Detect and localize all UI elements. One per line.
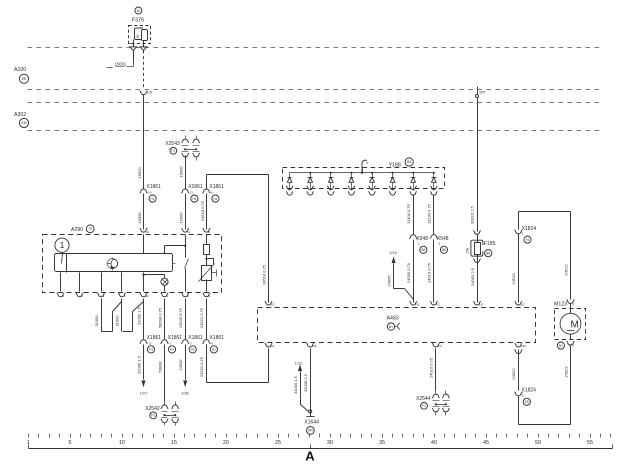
connector X1861 pin 10 [140, 184, 162, 202]
fuse F376 value 30 [136, 35, 140, 39]
socket 1/5 on wire at module boundary [140, 90, 152, 94]
dashed module separation line 2 (module A100 lower edge) [28, 89, 604, 91]
solder junction circle above X1644 [309, 410, 312, 413]
wire 11530 from Y188 diode D8 to connector X548 pin 3 [433, 195, 435, 234]
wire from A290 pin 10 into unit body [143, 235, 145, 254]
junction node on pin 12 lead [142, 274, 144, 276]
svg-text:2: 2 [187, 294, 189, 298]
wire value label 11409 0.75 [406, 203, 411, 223]
svg-text:31000 1.5: 31000 1.5 [136, 355, 141, 374]
wire 24003 from F185 to A403 pin 1/5 [477, 235, 479, 303]
fuse F376 right lead wire [143, 41, 145, 47]
svg-text:X1861: X1861 [188, 335, 203, 341]
svg-text:11530 0.75: 11530 0.75 [427, 203, 432, 223]
svg-text:9: 9 [208, 294, 210, 298]
wire value label 31000 1.5 [136, 306, 141, 325]
wire loop from A290 pin 6 area to A403 pin 1/2 (top segment) [207, 175, 269, 303]
svg-text:X1861: X1861 [210, 335, 225, 341]
svg-text:X2542: X2542 [145, 406, 160, 412]
socket above fuse F185 [473, 231, 481, 235]
svg-text:24521 0.75: 24521 0.75 [199, 356, 204, 377]
svg-text:1/5: 1/5 [147, 90, 152, 94]
svg-text:8: 8 [62, 294, 64, 298]
location code B1 for M123 [557, 342, 564, 349]
svg-text:15: 15 [171, 440, 177, 446]
svg-text:F1: F1 [151, 414, 155, 418]
svg-text:30: 30 [136, 35, 140, 39]
connector X1861 pin 1 (lower row) [161, 335, 183, 353]
svg-text:11: 11 [190, 191, 193, 195]
wire value label 58008 0.75 [157, 307, 162, 328]
svg-text:11409 0.75: 11409 0.75 [406, 203, 411, 223]
grid ruler baseline [29, 445, 613, 449]
svg-text:9: 9 [211, 342, 213, 346]
wire loop bottom segment [519, 397, 571, 425]
rheostat side tap terminal [212, 270, 217, 277]
svg-text:24003 2.5: 24003 2.5 [470, 267, 475, 286]
ground wire 31000 from A290 pin 12 to connector X1861 pin 12 [143, 299, 145, 339]
A290 inner unit body rectangle [55, 254, 173, 272]
svg-text:A100: A100 [14, 67, 26, 73]
control dial symbol inside A290 [107, 258, 118, 271]
wire 24022 from A403 pin 1/10 to X1824 pin 2 [518, 350, 520, 391]
svg-text:1: 1 [522, 232, 524, 236]
svg-text:30: 30 [327, 440, 333, 446]
svg-text:55: 55 [587, 440, 593, 446]
svg-text:F5: F5 [526, 238, 530, 242]
svg-text:4: 4 [124, 294, 126, 298]
svg-text:B1: B1 [559, 344, 563, 348]
svg-text:58008 0.75: 58008 0.75 [157, 307, 162, 328]
wire 16006 from X1861 pin 11 to A290 pin 11 [185, 194, 187, 230]
grid ruler numbers [27, 440, 593, 446]
svg-text:35: 35 [379, 440, 385, 446]
svg-text:X1861: X1861 [209, 184, 224, 190]
wire value label 11530 0.75 [427, 203, 432, 223]
svg-text:24022: 24022 [563, 366, 568, 378]
motor M123 dashed boundary box [555, 309, 586, 340]
svg-text:12: 12 [148, 342, 152, 346]
location code W4 for X1644 [307, 427, 315, 435]
wire value label 30016 2.5 [470, 205, 475, 224]
svg-text:F376: F376 [132, 18, 144, 24]
svg-text:30016 2.5: 30016 2.5 [470, 205, 475, 224]
wire value label 24521 0.75 (below X1861 pin 9) [199, 356, 204, 377]
wire 24513 from X1824 pin 1 to A403 pin 1/7 [518, 234, 520, 303]
svg-text:X2543: X2543 [165, 141, 180, 147]
A290 pin 1 at bottom edge [161, 293, 169, 298]
A290 pin 2b at bottom edge [181, 293, 189, 298]
A290 unit body bottom lead pin 5 [79, 273, 81, 292]
wire from loop corner down to connector X1861 pin 6 [206, 175, 208, 189]
item number circle 1 with pointer [55, 238, 69, 263]
junction node on pin 11 wire [184, 245, 186, 247]
wire value label 24006 [178, 359, 183, 371]
sheet continuation arrow 1/16 with branch to A403 pin 7/3 [389, 251, 413, 300]
svg-text:24505 0.75: 24505 0.75 [178, 307, 183, 328]
A290 pin 6 at top edge [203, 228, 211, 233]
wire from A290 pin 11 to junction [185, 235, 187, 246]
wire 24510 from A403 pin 7/4 to connector X2544 [435, 349, 437, 391]
wire 11409 from Y188 diode D7 to connector X548 pin 1 [413, 195, 415, 234]
series resistor inside A290 [204, 245, 210, 255]
module label A100 [14, 67, 26, 73]
motor M123 bottom pin 2 [567, 341, 575, 347]
A290 pin 9 at bottom edge [203, 293, 211, 298]
fuse F376 label [132, 18, 144, 24]
wire value label 16006 (middle) [179, 212, 184, 224]
svg-text:X1824: X1824 [522, 388, 537, 394]
wire value label 24513 (left) [511, 273, 516, 285]
A403 pin 1/1 at bottom edge [265, 343, 275, 348]
connector contact under F376 right lead [140, 45, 147, 51]
wire value label 31000 1.5 (arrow branch) [293, 375, 298, 394]
dashed module separation line 4 (module A302 lower edge) [28, 130, 604, 132]
connector X2544 [416, 391, 450, 416]
sheet continuation arrow 1/27 [140, 381, 147, 396]
svg-text:X1861: X1861 [147, 335, 162, 341]
diode D4 in Y188 [349, 172, 354, 187]
A403 pin 1/2 at top edge [265, 301, 275, 306]
Y188 bottom socket for diode D6 [389, 186, 396, 195]
ground wire 31000 from X1861 pin 12 to sheet arrow 1/27 [143, 345, 145, 380]
svg-text:X1861: X1861 [188, 184, 203, 190]
svg-text:M: M [571, 319, 579, 330]
fuse F376 dashed holder box [129, 26, 151, 44]
connector X1861 pin 11 [181, 184, 203, 202]
svg-text:16006: 16006 [179, 212, 184, 224]
grid circle 10 above fuse F376 [135, 7, 142, 14]
svg-text:24521 0.75: 24521 0.75 [199, 307, 204, 328]
dashed module separation line 3 (module A302 upper edge) [28, 102, 604, 104]
svg-text:50: 50 [535, 440, 541, 446]
svg-text:B6: B6 [486, 251, 490, 255]
svg-text:6: 6 [366, 161, 368, 165]
fuse F376 holder outline [135, 28, 144, 40]
diode D5 in Y188 [370, 172, 375, 187]
svg-text:1/36: 1/36 [181, 391, 188, 395]
A290 pin 4 at bottom edge [118, 293, 126, 298]
Y188 bottom socket for diode D4 [348, 186, 355, 195]
svg-text:40: 40 [431, 440, 437, 446]
wire value label 16006 (left) [137, 212, 142, 224]
wire from resistor to junction above rheostat [206, 255, 208, 266]
branch wire from junction into unit body [165, 246, 186, 254]
switch S inside A290 [185, 246, 189, 292]
grid ruler tick marks [29, 434, 611, 438]
A290 unit body bottom lead pin 2 [101, 273, 103, 292]
wire value label 31000 (pin 4 bridge) [115, 315, 120, 327]
wire 24521 from A290 pin 9 to connector X1861 pin 9 [206, 299, 208, 339]
svg-text:F185: F185 [484, 241, 496, 247]
diode D1 in Y188 [287, 173, 292, 187]
svg-text:12: 12 [145, 294, 149, 298]
connector X2542 [145, 402, 179, 426]
A290 unit body bottom lead pin 8 [60, 273, 62, 292]
svg-text:31000 1.5: 31000 1.5 [293, 375, 298, 394]
svg-text:1: 1 [418, 241, 420, 245]
location code EN for A302 [19, 118, 28, 127]
svg-text:24510 0.75: 24510 0.75 [427, 262, 432, 283]
control unit A403 label [387, 315, 399, 321]
connector X548 pin 1 [409, 234, 428, 254]
svg-text:1/16: 1/16 [389, 251, 396, 255]
wire value label 24510 0.75 (below A403) [429, 357, 434, 378]
common pin stub from hook to bus [361, 169, 363, 174]
junction node above rheostat [205, 258, 207, 260]
svg-text:16020: 16020 [137, 167, 142, 179]
svg-text:2: 2 [572, 343, 574, 347]
wire 16020 from socket 1/5 down to connector X1861 pin 10 [143, 95, 145, 189]
svg-text:H1: H1 [212, 348, 216, 352]
wire 24022 from M123 pin 2 down to loop bottom [570, 335, 572, 425]
ground bridge wire from A290 pin 4 [122, 299, 144, 332]
svg-text:16006: 16006 [179, 166, 184, 178]
svg-text:A302: A302 [14, 112, 26, 118]
svg-text:EK: EK [22, 77, 27, 81]
fuse F185 label [484, 241, 496, 247]
svg-text:30/T: 30/T [479, 91, 487, 95]
A290 unit body bottom lead pin 4 [121, 273, 123, 292]
svg-text:7/2: 7/2 [436, 303, 441, 307]
wire value label 24510 0.75 [427, 262, 432, 283]
svg-text:25: 25 [275, 440, 281, 446]
wire value label 58008 (below X1861 pin 1) [157, 361, 162, 373]
wire value label 24003 2.5 [470, 267, 475, 286]
svg-text:1: 1 [572, 302, 574, 306]
svg-text:16006: 16006 [137, 212, 142, 224]
wire value label 24505 0.75 [178, 307, 183, 328]
A290 pin 8 at bottom edge [57, 293, 65, 298]
svg-text:1/8: 1/8 [312, 344, 317, 348]
A290 inner body left compartment divider [66, 254, 68, 273]
wire value label 31000 (pin 2 bridge) [94, 315, 99, 327]
wire 30016 from node 30/T down to fuse F185 [477, 98, 479, 232]
wire 58008 from X1861 pin 1 down to connector X2542 [164, 345, 166, 402]
indicator lamp E inside A290 [161, 278, 168, 285]
connector X2543 [165, 136, 200, 161]
wire from A290 pin 6 to series resistor [206, 235, 208, 245]
svg-text:5: 5 [69, 440, 72, 446]
A290 pin 5 at bottom edge [76, 293, 84, 298]
Y188 bottom socket for diode D7 [410, 186, 417, 195]
A290 inner body right terminal tick [173, 263, 176, 265]
svg-text:F1: F1 [422, 404, 426, 408]
A290 pin 2 at bottom edge [97, 293, 105, 298]
rheostat (variable resistor) inside A290 [199, 264, 215, 282]
fuse F185 rating 15A [466, 247, 470, 254]
svg-text:A483: A483 [387, 315, 399, 321]
wire value label 24005 0.75 [406, 262, 411, 283]
svg-text:6: 6 [208, 230, 210, 234]
location code B4 for Y188 [405, 158, 413, 166]
section marker A [305, 445, 315, 464]
svg-text:X1861: X1861 [146, 184, 161, 190]
svg-text:W4: W4 [308, 429, 313, 433]
Y188 bottom socket for diode D1 [286, 186, 293, 195]
svg-text:24513: 24513 [511, 273, 516, 285]
svg-text:X1644: X1644 [304, 419, 319, 425]
module label A302 [14, 112, 26, 118]
ground point X1644 [304, 417, 319, 426]
branch wire to indicator lamp [144, 275, 165, 279]
svg-text:24510 0.75: 24510 0.75 [429, 357, 434, 378]
Y188 internal bus wire [290, 172, 434, 174]
fuse F185 holder outline [471, 240, 483, 256]
svg-text:1/5: 1/5 [479, 303, 484, 307]
svg-text:20: 20 [223, 440, 229, 446]
svg-text:2: 2 [190, 342, 192, 346]
fuse F376 left lead wire [129, 40, 134, 47]
control unit A290 label [71, 227, 83, 233]
svg-text:A290: A290 [71, 227, 83, 233]
wire value label 16020 [137, 167, 142, 179]
svg-text:10: 10 [137, 9, 141, 13]
svg-text:1/2: 1/2 [270, 303, 275, 307]
svg-text:2: 2 [103, 294, 105, 298]
A403 pin 1/5 at top edge [473, 301, 483, 306]
control unit A403 dashed boundary box [258, 308, 536, 343]
wire from lamp to A290 pin 1 [164, 286, 166, 292]
A403 pin 1/7 at top edge [515, 301, 525, 306]
motor M123 label [554, 302, 567, 308]
svg-text:2: 2 [522, 393, 524, 397]
wire value label 24022 (right) [563, 366, 568, 378]
svg-text:24513: 24513 [563, 264, 568, 276]
sheet continuation arrow 1/12 with branch [295, 362, 309, 412]
wire 24006 from X1861 pin 2 to sheet arrow 1/36 [185, 345, 187, 380]
wire 24005 from X548 pin 1 to A403 pin 7/3 [413, 240, 415, 303]
wire 24518 from X1861 pin 6 to A290 pin 6 [206, 194, 208, 230]
diode D6 in Y188 [390, 172, 395, 187]
connector contact under F376 left lead [130, 45, 137, 51]
diode D8 in Y188 [432, 172, 437, 187]
svg-text:H1: H1 [192, 197, 196, 201]
svg-text:31008 2.5: 31008 2.5 [303, 373, 308, 392]
connector X1824 pin 1 [514, 226, 536, 243]
svg-text:10: 10 [145, 230, 149, 234]
svg-text:B1: B1 [389, 325, 393, 329]
wire from rheostat to A290 pin 9 [206, 280, 208, 292]
socket circle of node 30/T [476, 95, 479, 98]
wire value label 24022 (left) [511, 368, 516, 380]
connector X1861 pin 2 (lower row) [181, 335, 203, 353]
motor M123 symbol [560, 304, 581, 335]
diode D3 in Y188 [329, 172, 334, 187]
connector X1824 pin 2 [514, 388, 536, 406]
A290 pin 10 at top edge [140, 228, 149, 233]
wire 16006 from X2543 down to connector X1861 pin 11 [185, 156, 187, 189]
svg-text:1/27: 1/27 [140, 391, 147, 395]
svg-text:10: 10 [119, 440, 125, 446]
node label 30/T [479, 91, 487, 95]
wire value label 24513 (right) [563, 264, 568, 276]
svg-text:EN: EN [22, 121, 27, 125]
Y188 bottom socket for diode D2 [307, 186, 314, 195]
location code EK for A100 [19, 74, 28, 83]
svg-text:7/3: 7/3 [415, 303, 420, 307]
svg-text:H1: H1 [149, 348, 153, 352]
svg-text:5: 5 [81, 294, 83, 298]
svg-text:24518 0.75: 24518 0.75 [262, 264, 267, 285]
connector X1861 pin 9 (lower row) [202, 335, 224, 353]
svg-text:1/1: 1/1 [270, 344, 275, 348]
diode D2 in Y188 [308, 172, 313, 187]
svg-text:31000: 31000 [115, 315, 120, 327]
svg-text:B4: B4 [407, 160, 411, 164]
wire 58008 from A290 pin 1 to connector X1861 pin 1 [164, 299, 166, 339]
A403 pin 7/2 at top edge [430, 301, 440, 306]
svg-text:24005: 24005 [386, 275, 391, 287]
svg-text:3: 3 [439, 241, 441, 245]
motor M123 top socket pin 1 [567, 300, 575, 306]
svg-text:10: 10 [148, 191, 152, 195]
A403 pin 7/3 at top edge [409, 301, 419, 306]
diode D7 in Y188 [411, 172, 416, 187]
svg-text:24518 0.75: 24518 0.75 [200, 200, 205, 221]
connector X548 pin 3 [430, 234, 449, 254]
location code B6 for F185 [485, 250, 492, 257]
wire 24521 from X1861 pin 9 to A403 pin 1/1 (loop bottom) [207, 345, 269, 383]
connector X1861 pin 6 [202, 184, 224, 202]
dashed wire from F376 right contact inside A100 [143, 51, 145, 89]
svg-text:X1824: X1824 [522, 226, 537, 232]
sheet continuation arrow 1/36 [181, 381, 188, 396]
A403 pin 1/10 at bottom edge [514, 343, 526, 353]
wire value label 24005 (arrow branch) [386, 275, 391, 287]
wire value label 24518 0.75 [200, 200, 205, 221]
svg-text:H1: H1 [170, 348, 174, 352]
solenoid/diode block Y188 label [389, 162, 401, 168]
svg-text:X2544: X2544 [416, 396, 431, 402]
wire 16006 from X1861 pin 10 to A290 pin 10 [143, 194, 145, 230]
control unit A290 dashed boundary box [43, 235, 222, 293]
svg-text:1: 1 [60, 241, 65, 250]
ground bridge wire from A290 pin 2 [102, 299, 122, 332]
svg-text:H1: H1 [151, 197, 155, 201]
svg-text:15001: 15001 [115, 61, 127, 66]
svg-text:1/10: 1/10 [520, 344, 526, 348]
net label 15001 with continuation bracket [107, 61, 134, 67]
pin socket below fuse F185 [473, 259, 481, 263]
fuse F185 element [475, 243, 481, 255]
location code B1 for A403 with pointer [387, 323, 400, 330]
svg-text:1: 1 [169, 342, 171, 346]
Y188 bottom socket for diode D3 [327, 186, 334, 195]
svg-text:B6: B6 [421, 248, 425, 252]
wire 24505 from A290 pin 2b to connector X1861 pin 2 [185, 299, 187, 339]
svg-text:B6: B6 [442, 248, 446, 252]
svg-text:24022: 24022 [511, 368, 516, 380]
A290 pin 11 at top edge [181, 228, 190, 233]
Y188 bottom socket for diode D8 [430, 186, 437, 195]
svg-text:M123: M123 [554, 302, 567, 308]
node 30/T branch stub [477, 87, 479, 95]
svg-text:45: 45 [483, 440, 489, 446]
A290 unit body bottom lead pin 12 with lamp branch [143, 273, 145, 292]
A403 pin 7/4 at bottom edge [432, 343, 442, 348]
wire value label 24518 0.75 (loop right edge) [262, 264, 267, 285]
wire value label 31000 1.5 (below X1861) [136, 355, 141, 374]
bypass wire from junction to rheostat wiper [207, 259, 214, 265]
svg-text:1: 1 [166, 294, 168, 298]
Y188 bottom socket for diode D5 [368, 186, 375, 195]
svg-text:H1: H1 [213, 197, 217, 201]
svg-text:F5: F5 [525, 400, 529, 404]
svg-text:7/4: 7/4 [438, 344, 443, 348]
svg-text:79: 79 [88, 227, 92, 231]
svg-text:24006: 24006 [178, 359, 183, 371]
